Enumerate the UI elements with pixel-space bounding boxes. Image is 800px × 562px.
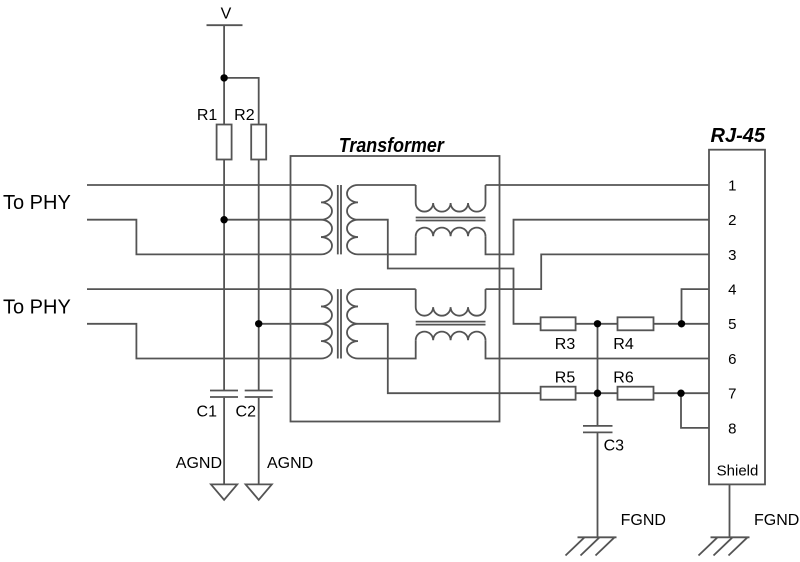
svg-text:AGND: AGND [176,455,222,472]
svg-text:3: 3 [728,247,736,264]
choke L2 top winding [416,289,486,316]
wire pin8 feed [681,393,709,428]
wire T1 secondary bottom to choke [358,236,416,254]
choke L1 bottom winding [416,228,486,237]
wire PHY pair2 - (steps down to primary bottom) [87,324,321,359]
capacitor C1 [210,391,238,398]
wire T1 center tap to R3 [358,220,541,324]
wire PHY pair2 + (to primary top) [87,288,321,290]
svg-text:To PHY: To PHY [3,192,71,214]
wire choke L2 bottom out to pin6 [486,340,710,358]
svg-text:6: 6 [728,351,736,368]
svg-text:RJ-45: RJ-45 [711,125,766,147]
wire R1 column down to C1 [223,160,225,391]
wire T2 center tap to R5 [358,324,541,393]
wire R3R4 node down to R5R6 node [597,324,599,393]
resistor R4 [618,317,654,330]
junction R2 tap [255,320,262,327]
svg-text:4: 4 [728,282,736,299]
ground AGND arrow left [211,484,237,499]
wire R4 to pin5 [654,323,710,325]
svg-text:C1: C1 [197,404,218,421]
wire C3 to FGND [597,432,599,537]
wire shield to FGND [729,484,731,537]
wire T2 secondary top to choke L2 [358,288,416,290]
wire R3 to R4 [576,323,618,325]
wire C1 to AGND [223,398,225,485]
svg-text:AGND: AGND [267,455,313,472]
svg-text:R4: R4 [613,336,634,353]
svg-text:R5: R5 [555,370,576,387]
wire choke L2 top out to pin3 [486,254,710,289]
choke L1 top winding [416,185,486,212]
wire PHY pair1 - (steps down to primary bottom) [87,220,321,255]
svg-text:7: 7 [728,386,736,403]
svg-text:Shield: Shield [717,462,759,479]
choke L1 core [416,218,486,221]
junction R3-R4 [594,320,601,327]
wire R6 to pin7 [654,392,710,394]
junction R1 tap [220,216,227,223]
resistor R5 [541,387,576,400]
svg-text:2: 2 [728,212,736,229]
ground FGND earth left [566,537,617,555]
wire V to R1 top [223,25,225,124]
supply V symbol bar [207,24,243,26]
transformer T1 primary winding [321,185,332,254]
svg-text:R1: R1 [197,107,218,124]
wire R2 column down to C2 [258,160,260,391]
resistor R1 [217,125,232,160]
transformer T1 secondary winding [347,185,358,254]
capacitor C3 [583,426,613,433]
wire choke L1 top out to pin1 [486,184,710,186]
svg-text:1: 1 [728,177,736,194]
wire branch to R2 [224,78,259,125]
resistor R6 [618,387,654,400]
wire R5 to R6 [576,392,618,394]
svg-text:5: 5 [728,316,736,333]
transformer box [291,156,500,422]
ground FGND earth right [699,537,750,555]
transformer T2 core [338,289,341,358]
svg-text:FGND: FGND [621,512,666,529]
ground AGND arrow right [246,484,272,499]
svg-text:8: 8 [728,420,736,437]
svg-text:Transformer: Transformer [339,135,445,157]
transformer T1 core [338,185,341,254]
wire PHY pair1 + (to primary top) [87,184,321,186]
svg-text:C2: C2 [236,404,257,421]
junction R5-R6 [594,390,601,397]
svg-text:R3: R3 [555,336,576,353]
choke L2 core [416,322,486,325]
svg-text:C3: C3 [604,438,625,455]
junction pin8 feed [677,390,684,397]
junction pin4 feed [678,320,685,327]
wire T2 secondary bottom to choke [358,340,416,358]
connector RJ-45 box [709,150,765,485]
junction V branch [220,74,227,81]
wire C2 to AGND [258,398,260,485]
wire node to C3 [597,393,599,426]
wire T1 secondary top to choke L1 [358,184,416,186]
svg-text:FGND: FGND [754,512,799,529]
wire pin4 feed [682,289,710,324]
wire R2 tap to primary mid [259,323,321,325]
transformer T2 primary winding [321,289,332,358]
svg-text:R6: R6 [613,370,634,387]
resistor R2 [251,125,266,160]
capacitor C2 [245,391,273,398]
choke L2 bottom winding [416,332,486,341]
wire choke L1 bottom out to pin2 [486,220,710,255]
resistor R3 [541,317,576,330]
svg-text:R2: R2 [234,107,255,124]
wire R1 tap to primary mid [224,219,321,221]
svg-text:To PHY: To PHY [3,297,71,319]
transformer T2 secondary winding [347,289,358,358]
svg-text:V: V [221,6,232,23]
